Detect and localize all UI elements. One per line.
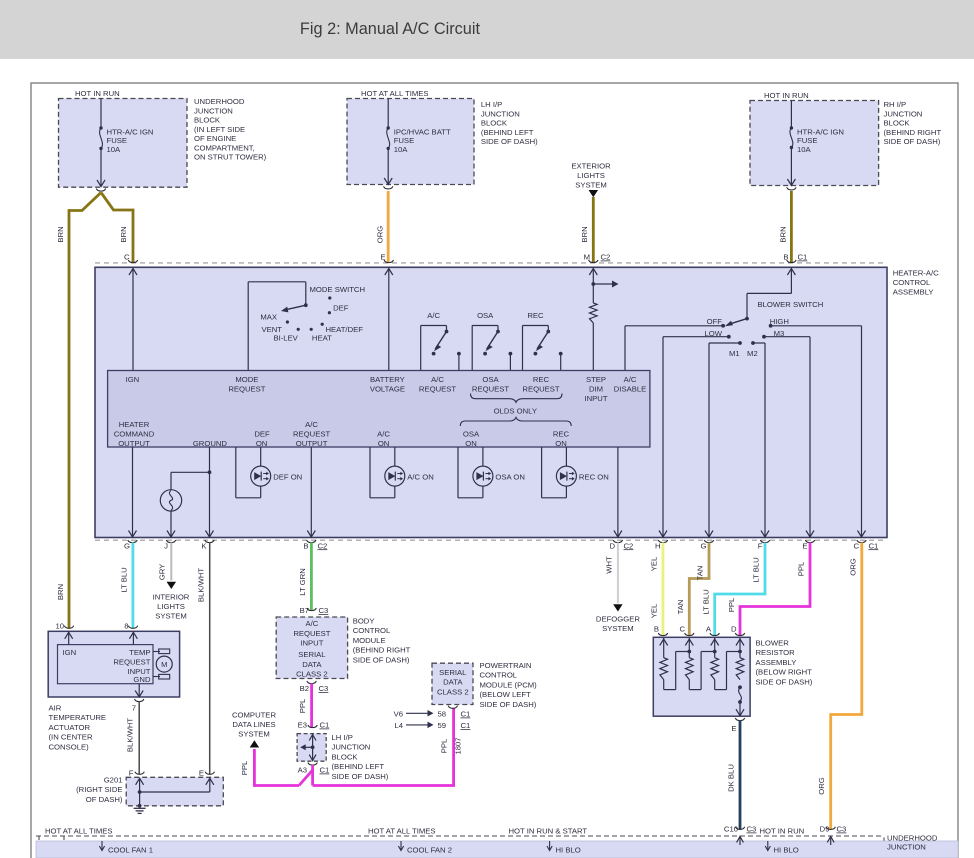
svg-text:OSA: OSA bbox=[463, 430, 480, 439]
connector arc PCM pin 58 bbox=[448, 706, 457, 709]
svg-text:C1: C1 bbox=[461, 710, 471, 719]
connector arc blower resistor output E bbox=[735, 718, 744, 721]
svg-text:M1: M1 bbox=[729, 349, 740, 358]
svg-text:COMMAND: COMMAND bbox=[114, 430, 155, 439]
svg-text:59: 59 bbox=[437, 721, 446, 730]
svg-text:PPL: PPL bbox=[240, 760, 249, 775]
svg-text:C3: C3 bbox=[319, 684, 329, 693]
svg-text:JUNCTION: JUNCTION bbox=[481, 109, 520, 118]
wire from F2 to box bottom with arrow bbox=[384, 148, 392, 184]
wire output to terminal D bbox=[614, 447, 622, 537]
svg-text:A/C: A/C bbox=[305, 619, 318, 628]
powertrain control module box (dashed) bbox=[432, 663, 473, 704]
svg-text:JUNCTION: JUNCTION bbox=[194, 106, 233, 115]
mode switch position labels bbox=[260, 304, 363, 343]
svg-text:INPUT: INPUT bbox=[584, 394, 607, 403]
svg-text:BI-LEV: BI-LEV bbox=[273, 334, 298, 343]
blower switch contact HIGH to terminal C bbox=[769, 324, 866, 537]
blower switch feed from terminal B bbox=[747, 268, 795, 319]
switch OSA request bbox=[472, 326, 512, 371]
wire ORG terminal C to underhood junction D9 bbox=[831, 543, 862, 830]
mode switch position dots bbox=[286, 296, 332, 331]
svg-text:B: B bbox=[783, 253, 788, 262]
svg-text:B: B bbox=[303, 541, 308, 550]
svg-text:CONTROL: CONTROL bbox=[353, 626, 391, 635]
svg-text:SIDE OF DASH): SIDE OF DASH) bbox=[884, 137, 941, 146]
svg-text:POWERTRAIN: POWERTRAIN bbox=[480, 661, 532, 670]
svg-text:REC: REC bbox=[553, 430, 570, 439]
svg-text:SYSTEM: SYSTEM bbox=[602, 624, 634, 633]
bottom terminal labels right half bbox=[609, 541, 859, 550]
svg-text:COMPARTMENT,: COMPARTMENT, bbox=[194, 143, 255, 152]
blower resistor input arrows bbox=[660, 638, 744, 652]
wire GND output through actuator box bottom bbox=[135, 684, 143, 697]
inner box input pin labels bbox=[126, 375, 647, 403]
svg-text:(BELOW RIGHT: (BELOW RIGHT bbox=[756, 668, 813, 677]
svg-text:CLASS 2: CLASS 2 bbox=[437, 687, 469, 696]
wire LT GRN terminal B to BCM terminal B7 bbox=[310, 543, 313, 611]
svg-text:V6: V6 bbox=[394, 710, 403, 719]
wire ground output to terminal K with lamp branch junction bbox=[171, 447, 214, 537]
junction block label LH I/P JUNCTION BLOCK bbox=[481, 100, 538, 146]
svg-text:ON: ON bbox=[256, 439, 268, 448]
arrow from exterior lights system into wire bbox=[589, 190, 599, 197]
indicator LED DEF ON bbox=[236, 447, 271, 498]
svg-text:E3: E3 bbox=[298, 721, 307, 730]
wire PPL data bus to PCM pins 58 59 bbox=[313, 709, 454, 786]
svg-text:HOT AT ALL TIMES: HOT AT ALL TIMES bbox=[45, 827, 113, 836]
wire LT BLU terminal F to blower resistor pin A bbox=[715, 543, 765, 636]
svg-text:REQUEST: REQUEST bbox=[293, 629, 330, 638]
component label POWERTRAIN CONTROL MODULE (PCM) bbox=[480, 661, 538, 709]
wire TAN terminal G to blower resistor pin C bbox=[689, 543, 709, 636]
wire from HOT AT ALL TIMES into fuse F2 bbox=[387, 99, 389, 127]
system reference EXTERIOR LIGHTS SYSTEM bbox=[571, 162, 611, 190]
system reference INTERIOR LIGHTS SYSTEM bbox=[153, 593, 190, 621]
blower resistor assembly box bbox=[653, 637, 750, 716]
svg-text:OSA: OSA bbox=[482, 375, 499, 384]
arrow to defogger system bbox=[613, 604, 623, 611]
svg-text:J: J bbox=[164, 541, 168, 550]
svg-text:DEFOGGER: DEFOGGER bbox=[596, 615, 640, 624]
svg-text:C3: C3 bbox=[747, 825, 757, 834]
wire BRN split from F1, right branch to heater control terminal C bbox=[101, 193, 133, 264]
svg-text:LT BLU: LT BLU bbox=[752, 557, 761, 582]
svg-text:BLOWER SWITCH: BLOWER SWITCH bbox=[758, 300, 824, 309]
terminal label E3 with connector C1 bbox=[298, 721, 330, 730]
svg-text:A/C ON: A/C ON bbox=[407, 472, 433, 481]
terminal labels B C A D (blower resistors) bbox=[654, 625, 737, 634]
connector arc below middle fuse box bbox=[384, 186, 393, 189]
component label BODY CONTROL MODULE bbox=[353, 617, 411, 665]
fuse F2 IPC/HVAC BATT FUSE 10A bbox=[387, 126, 390, 150]
svg-text:LOW: LOW bbox=[704, 329, 722, 338]
svg-text:OF ENGINE: OF ENGINE bbox=[194, 134, 236, 143]
wire BRN split from F1, left branch to air temperature actuator pin 10 bbox=[69, 193, 101, 629]
svg-text:HEAT/DEF: HEAT/DEF bbox=[326, 325, 364, 334]
svg-text:STEP: STEP bbox=[586, 375, 606, 384]
svg-text:C1: C1 bbox=[798, 253, 808, 262]
svg-text:SIDE OF DASH): SIDE OF DASH) bbox=[480, 700, 537, 709]
svg-text:ACTUATOR: ACTUATOR bbox=[49, 723, 91, 732]
title bar bbox=[0, 0, 974, 59]
svg-text:DEF: DEF bbox=[333, 304, 349, 313]
svg-text:BODY: BODY bbox=[353, 617, 375, 626]
terminal labels F and E (G201) bbox=[129, 769, 204, 778]
svg-text:C3: C3 bbox=[837, 825, 847, 834]
svg-text:LH I/P: LH I/P bbox=[332, 733, 353, 742]
svg-text:BRN: BRN bbox=[56, 584, 65, 600]
ground symbol G201 bbox=[134, 808, 146, 813]
svg-text:M2: M2 bbox=[747, 349, 758, 358]
bottom junction strip boxes bbox=[36, 841, 958, 858]
svg-text:OSA: OSA bbox=[477, 311, 494, 320]
svg-text:C: C bbox=[124, 253, 130, 262]
svg-text:(BEHIND LEFT: (BEHIND LEFT bbox=[332, 762, 385, 771]
svg-text:COMPUTER: COMPUTER bbox=[232, 711, 276, 720]
system reference DEFOGGER SYSTEM bbox=[596, 615, 640, 634]
svg-text:(BEHIND RIGHT: (BEHIND RIGHT bbox=[884, 128, 942, 137]
svg-text:JUNCTION: JUNCTION bbox=[887, 843, 926, 852]
svg-text:RESISTOR: RESISTOR bbox=[756, 648, 796, 657]
terminal label B with connector C1 (heater control top) bbox=[783, 253, 807, 262]
svg-text:A3: A3 bbox=[298, 766, 307, 775]
blower switch rotor and arm bbox=[725, 317, 749, 327]
svg-text:D: D bbox=[609, 541, 615, 550]
svg-text:DEF: DEF bbox=[254, 430, 270, 439]
svg-text:SERIAL: SERIAL bbox=[439, 668, 467, 677]
BCM pin function label SERIAL DATA CLASS 2 bbox=[296, 650, 328, 678]
fuse tap arrow COOL FAN 1 bbox=[99, 841, 104, 851]
svg-text:MODULE (PCM): MODULE (PCM) bbox=[480, 680, 538, 689]
svg-text:LT BLU: LT BLU bbox=[120, 567, 129, 592]
svg-text:HOT IN RUN: HOT IN RUN bbox=[760, 827, 805, 836]
svg-text:BRN: BRN bbox=[779, 226, 788, 242]
svg-text:HOT IN RUN: HOT IN RUN bbox=[75, 89, 120, 98]
svg-text:HEAT: HEAT bbox=[312, 334, 332, 343]
svg-text:A/C: A/C bbox=[305, 420, 318, 429]
svg-text:ON: ON bbox=[378, 439, 390, 448]
fuse tap arrow HI BLO 2 bbox=[765, 841, 770, 851]
svg-text:MAX: MAX bbox=[260, 313, 277, 322]
thermal limiter on high circuit bbox=[736, 685, 744, 715]
svg-text:PPL: PPL bbox=[727, 597, 736, 612]
svg-text:BLK/WHT: BLK/WHT bbox=[197, 568, 206, 602]
svg-text:C10: C10 bbox=[724, 825, 738, 834]
wire PPL terminal E to blower resistor pin D bbox=[740, 543, 810, 636]
component label BLOWER RESISTOR ASSEMBLY bbox=[756, 639, 813, 687]
svg-text:HI BLO: HI BLO bbox=[556, 846, 581, 855]
connector dashed line across heater control top bbox=[95, 262, 887, 264]
svg-text:L4: L4 bbox=[394, 721, 403, 730]
svg-text:BRN: BRN bbox=[56, 226, 65, 242]
BCM pin function label A/C REQUEST INPUT bbox=[293, 619, 330, 647]
terminal label 58 with connector C1 bbox=[437, 710, 470, 719]
svg-text:UNDERHOOD: UNDERHOOD bbox=[887, 834, 938, 843]
svg-text:PPL: PPL bbox=[797, 561, 806, 576]
svg-text:ON: ON bbox=[555, 439, 567, 448]
connector arcs actuator pins 10 and 8 bbox=[64, 626, 137, 629]
wire IGN input from terminal C bbox=[129, 268, 137, 371]
svg-text:JUNCTION: JUNCTION bbox=[332, 743, 371, 752]
brace olds only under OSA REC request bbox=[471, 394, 563, 403]
terminal label 59 with connector C1 bbox=[437, 721, 470, 730]
svg-text:PPL: PPL bbox=[298, 698, 307, 713]
heater control bottom terminal labels bbox=[124, 541, 308, 550]
svg-text:OLDS ONLY: OLDS ONLY bbox=[494, 406, 537, 415]
svg-text:LIGHTS: LIGHTS bbox=[157, 602, 185, 611]
svg-text:VOLTAGE: VOLTAGE bbox=[370, 385, 405, 394]
svg-text:GND: GND bbox=[133, 675, 151, 684]
svg-text:B: B bbox=[654, 625, 659, 634]
engine reference L4 to pin 59 bbox=[394, 721, 433, 730]
svg-text:HI BLO: HI BLO bbox=[774, 846, 799, 855]
svg-text:OF DASH): OF DASH) bbox=[86, 795, 123, 804]
svg-text:ASSEMBLY: ASSEMBLY bbox=[893, 288, 934, 297]
svg-text:HOT AT ALL TIMES: HOT AT ALL TIMES bbox=[368, 827, 436, 836]
svg-text:MODE SWITCH: MODE SWITCH bbox=[310, 285, 366, 294]
svg-text:A: A bbox=[706, 625, 712, 634]
svg-text:TEMPERATURE: TEMPERATURE bbox=[49, 713, 107, 722]
wire BLK/WHT terminal K to G201 terminal E bbox=[209, 543, 211, 775]
fuse tap arrow COOL FAN 2 bbox=[398, 841, 403, 851]
svg-text:C1: C1 bbox=[461, 721, 471, 730]
wire into C10 with arrow bbox=[737, 837, 744, 846]
blower switch contact OFF to A/C disable input bbox=[625, 324, 725, 371]
svg-text:C: C bbox=[679, 625, 685, 634]
svg-text:DATA LINES: DATA LINES bbox=[232, 720, 275, 729]
svg-text:DATA: DATA bbox=[443, 678, 463, 687]
svg-text:GROUND: GROUND bbox=[193, 439, 228, 448]
svg-text:ASSEMBLY: ASSEMBLY bbox=[756, 658, 797, 667]
terminal label B2 with connector C3 bbox=[300, 684, 329, 693]
junction block label UNDERHOOD JUNCTION BLOCK bbox=[194, 97, 267, 162]
svg-text:10A: 10A bbox=[394, 145, 409, 154]
resistor R3 bbox=[711, 658, 719, 680]
svg-text:58: 58 bbox=[437, 710, 446, 719]
switch A/C request bbox=[421, 326, 461, 371]
svg-text:C1: C1 bbox=[320, 721, 330, 730]
svg-text:M: M bbox=[161, 660, 167, 669]
fuse F1 HTR-A/C IGN FUSE 10A bbox=[99, 126, 102, 150]
bottom junction strip dashed boundary bbox=[36, 836, 884, 858]
svg-text:(BELOW LEFT: (BELOW LEFT bbox=[480, 690, 532, 699]
PCM pin function label SERIAL DATA CLASS 2 bbox=[437, 668, 469, 696]
svg-text:IGN: IGN bbox=[126, 375, 140, 384]
blower switch contact M2 to terminal F bbox=[751, 341, 769, 537]
svg-text:E: E bbox=[199, 769, 204, 778]
connector arc BCM terminal B7 bbox=[307, 608, 316, 611]
svg-text:SIDE OF DASH): SIDE OF DASH) bbox=[353, 655, 410, 664]
svg-text:YEL: YEL bbox=[650, 556, 659, 571]
svg-text:H: H bbox=[655, 541, 661, 550]
G201 internal wires and junction bbox=[136, 778, 214, 808]
svg-text:1807: 1807 bbox=[454, 737, 463, 754]
wire BRN from F3 to heater control terminal B bbox=[790, 191, 793, 263]
connector arc actuator GND pin 7 bbox=[135, 699, 144, 702]
svg-text:F: F bbox=[758, 541, 763, 550]
svg-text:B2: B2 bbox=[300, 684, 309, 693]
ground splice box G201 (dashed) bbox=[126, 777, 223, 806]
svg-text:BRN: BRN bbox=[119, 226, 128, 242]
svg-text:HTR-A/C IGN: HTR-A/C IGN bbox=[107, 128, 154, 137]
resistor R1 (low) bbox=[660, 658, 668, 680]
junction block label RH I/P JUNCTION BLOCK bbox=[884, 100, 942, 146]
switch REC request bbox=[523, 326, 563, 371]
wire from HOT IN RUN into fuse F1 bbox=[100, 99, 102, 127]
svg-text:LT BLU: LT BLU bbox=[702, 589, 711, 614]
value label IPC/HVAC BATT FUSE 10A bbox=[394, 128, 451, 154]
svg-text:A/C: A/C bbox=[377, 430, 390, 439]
wire PPL data bus to computer data lines system bbox=[254, 749, 299, 786]
svg-text:REQUEST: REQUEST bbox=[419, 385, 456, 394]
svg-text:TEMP: TEMP bbox=[129, 648, 150, 657]
svg-text:(IN CENTER: (IN CENTER bbox=[49, 733, 93, 742]
label G201 (RIGHT SIDE OF DASH) bbox=[76, 776, 123, 804]
svg-text:ORG: ORG bbox=[817, 777, 826, 795]
svg-text:A/C: A/C bbox=[427, 311, 440, 320]
wire into D9 with arrow bbox=[827, 837, 834, 846]
connector arc junction block A3 bbox=[308, 763, 317, 766]
svg-text:CONTROL: CONTROL bbox=[480, 671, 518, 680]
blower switch contact LOW to terminal H bbox=[659, 335, 731, 537]
svg-text:OUTPUT: OUTPUT bbox=[118, 439, 150, 448]
air temperature actuator box bbox=[48, 631, 179, 697]
svg-text:DISABLE: DISABLE bbox=[614, 385, 646, 394]
svg-text:RH I/P: RH I/P bbox=[884, 100, 907, 109]
svg-text:LT GRN: LT GRN bbox=[298, 568, 307, 595]
engine reference V6 to pin 58 bbox=[394, 710, 434, 719]
wire battery voltage input from terminal E bbox=[385, 268, 393, 371]
indicator LED A/C ON bbox=[370, 447, 405, 498]
junction block box: underhood junction block (dashed) bbox=[59, 99, 188, 188]
svg-text:DEF ON: DEF ON bbox=[273, 472, 302, 481]
svg-text:INPUT: INPUT bbox=[300, 639, 323, 648]
mode switch MODE SWITCH bbox=[248, 282, 307, 371]
svg-text:C2: C2 bbox=[601, 253, 611, 262]
blower switch contact M3 to terminal E bbox=[762, 335, 814, 537]
svg-text:SYSTEM: SYSTEM bbox=[155, 612, 187, 621]
wire from F3 to box bottom with arrow bbox=[787, 148, 795, 186]
svg-text:(RIGHT SIDE: (RIGHT SIDE bbox=[76, 785, 122, 794]
junction block box: RH I/P junction block (dashed) bbox=[750, 101, 879, 186]
terminal label M with connector C2 (heater control top) bbox=[584, 253, 611, 262]
wire ORG from F2 to heater control terminal E bbox=[387, 191, 390, 263]
svg-text:UNDERHOOD: UNDERHOOD bbox=[194, 97, 245, 106]
svg-text:(BEHIND RIGHT: (BEHIND RIGHT bbox=[353, 646, 411, 655]
connector dashed line across heater control bottom bbox=[95, 539, 887, 541]
svg-text:MODE: MODE bbox=[235, 375, 258, 384]
svg-text:SIDE OF DASH): SIDE OF DASH) bbox=[756, 677, 813, 686]
svg-text:EXTERIOR: EXTERIOR bbox=[571, 162, 611, 171]
svg-text:YEL: YEL bbox=[650, 603, 659, 618]
svg-text:OUTPUT: OUTPUT bbox=[296, 439, 328, 448]
blower resistor interconnects bbox=[664, 652, 740, 690]
wire step dim input from terminal M with junction and resistor bbox=[589, 268, 618, 371]
svg-text:F: F bbox=[129, 769, 134, 778]
svg-text:SIDE OF DASH): SIDE OF DASH) bbox=[332, 772, 389, 781]
blower switch contact M1 to terminal G bbox=[705, 341, 742, 537]
terminal label C10 with connector C3 bbox=[724, 825, 756, 834]
svg-text:WHT: WHT bbox=[605, 556, 614, 574]
resistor step dim input bbox=[590, 303, 598, 323]
arrow to interior lights system bbox=[167, 582, 177, 589]
svg-text:HOT IN RUN & START: HOT IN RUN & START bbox=[509, 827, 588, 836]
svg-text:INTERIOR: INTERIOR bbox=[153, 593, 190, 602]
svg-text:COOL FAN 1: COOL FAN 1 bbox=[108, 846, 153, 855]
svg-text:C2: C2 bbox=[624, 541, 634, 550]
svg-text:B7: B7 bbox=[300, 606, 309, 615]
svg-text:CONSOLE): CONSOLE) bbox=[49, 742, 90, 751]
svg-text:ORG: ORG bbox=[376, 226, 385, 244]
arrow to computer data lines system bbox=[250, 740, 260, 747]
fuse tap arrow HI BLO 1 bbox=[547, 841, 552, 851]
heater-A/C control assembly box bbox=[95, 267, 887, 537]
connector arcs heater control top terminals C E M B bbox=[128, 260, 796, 263]
motor M inside actuator bbox=[153, 649, 172, 679]
component label AIR TEMPERATURE ACTUATOR bbox=[49, 704, 107, 752]
body control module box (dashed) bbox=[276, 617, 347, 679]
svg-text:SERIAL: SERIAL bbox=[298, 650, 326, 659]
terminal label A3 with connector C1 bbox=[298, 766, 330, 775]
junction block internal bus with arrows bbox=[300, 734, 316, 761]
svg-text:COOL FAN 2: COOL FAN 2 bbox=[407, 846, 452, 855]
svg-text:C3: C3 bbox=[319, 606, 329, 615]
inner box output pin labels bbox=[114, 420, 570, 448]
terminal label B7 with connector C3 bbox=[300, 606, 329, 615]
actuator pin labels IGN TEMP REQUEST INPUT GND bbox=[63, 648, 151, 684]
wire A/C request output to terminal B bbox=[307, 447, 315, 537]
svg-text:CONTROL: CONTROL bbox=[893, 278, 931, 287]
svg-text:G: G bbox=[124, 541, 130, 550]
wire LT BLU terminal G to actuator pin 8 bbox=[131, 543, 134, 629]
illumination lamp to terminal J bbox=[160, 490, 181, 537]
svg-text:LH I/P: LH I/P bbox=[481, 100, 502, 109]
brace olds only over OSA REC on bbox=[460, 417, 571, 426]
component label LH I/P JUNCTION BLOCK (lower) bbox=[332, 733, 389, 781]
wire GRY terminal J to interior lights system bbox=[170, 543, 172, 581]
connector arc BCM terminal B2 bbox=[307, 681, 316, 684]
svg-text:SYSTEM: SYSTEM bbox=[575, 181, 607, 190]
svg-text:PPL: PPL bbox=[440, 738, 449, 753]
value label HTR-A/C IGN FUSE 10A (right) bbox=[797, 128, 844, 154]
svg-text:HTR-A/C IGN: HTR-A/C IGN bbox=[797, 128, 844, 137]
svg-text:LIGHTS: LIGHTS bbox=[577, 171, 605, 180]
svg-text:BLOCK: BLOCK bbox=[332, 752, 359, 761]
svg-text:BRN: BRN bbox=[580, 226, 589, 242]
svg-text:(IN LEFT SIDE: (IN LEFT SIDE bbox=[194, 125, 245, 134]
control logic inner box bbox=[108, 371, 650, 448]
connector arcs blower resistor pins B C A D bbox=[658, 633, 744, 636]
wire DK BLU blower resistor E to underhood junction C10 bbox=[739, 721, 742, 830]
wire PPL BCM B2 to junction block E3 bbox=[310, 684, 313, 728]
resistor R2 bbox=[686, 658, 694, 680]
wire pin 8 to temp request input with arrow bbox=[129, 632, 137, 645]
svg-text:IPC/HVAC BATT: IPC/HVAC BATT bbox=[394, 128, 451, 137]
svg-text:10A: 10A bbox=[107, 145, 122, 154]
connector arc below left fuse box bbox=[96, 189, 105, 192]
connector arcs heater control bottom terminals bbox=[128, 540, 866, 543]
svg-text:BLK/WHT: BLK/WHT bbox=[126, 718, 135, 752]
svg-text:BLOWER: BLOWER bbox=[756, 639, 790, 648]
indicator LED REC ON bbox=[542, 447, 577, 498]
svg-text:TAN: TAN bbox=[696, 566, 705, 581]
svg-text:DIM: DIM bbox=[589, 385, 603, 394]
blower resistor network ladder bbox=[664, 650, 742, 658]
svg-text:JUNCTION: JUNCTION bbox=[884, 109, 923, 118]
svg-text:E: E bbox=[802, 541, 807, 550]
svg-text:BLOCK: BLOCK bbox=[884, 119, 911, 128]
